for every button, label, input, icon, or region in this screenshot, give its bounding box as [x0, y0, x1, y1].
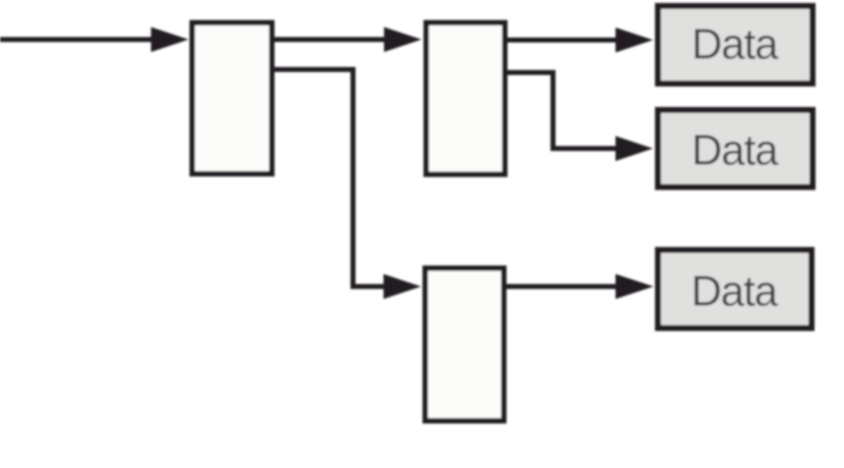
wire: input arrow line into node N1 — [0, 37, 154, 42]
svg-text:Data: Data — [691, 269, 778, 316]
arrowhead into data block D1 — [616, 28, 654, 53]
wire: node N1 to node N2 — [275, 37, 387, 42]
data block D2 — [658, 110, 813, 187]
data block D3 — [658, 250, 812, 328]
wire: node N2 down-elbow to data block D2 — [508, 73, 618, 149]
arrowhead into node N1 — [151, 27, 189, 52]
svg-text:Data: Data — [692, 128, 779, 175]
arrowhead into data block D3 — [616, 274, 654, 299]
node N3 (lower index block) — [425, 268, 504, 421]
svg-text:Data: Data — [692, 22, 779, 69]
arrowhead into node N3 — [384, 274, 422, 299]
arrowhead into node N2 — [384, 27, 422, 52]
wire: node N1 down-elbow to node N3 — [275, 70, 385, 287]
node N1 (root index block) — [192, 23, 272, 174]
data block D1 — [658, 6, 813, 84]
wire: node N3 to data block D3 — [507, 284, 618, 289]
arrowhead into data block D2 — [616, 136, 654, 161]
wire: node N2 to data block D1 — [508, 38, 618, 43]
node N2 (upper index block) — [426, 23, 505, 175]
